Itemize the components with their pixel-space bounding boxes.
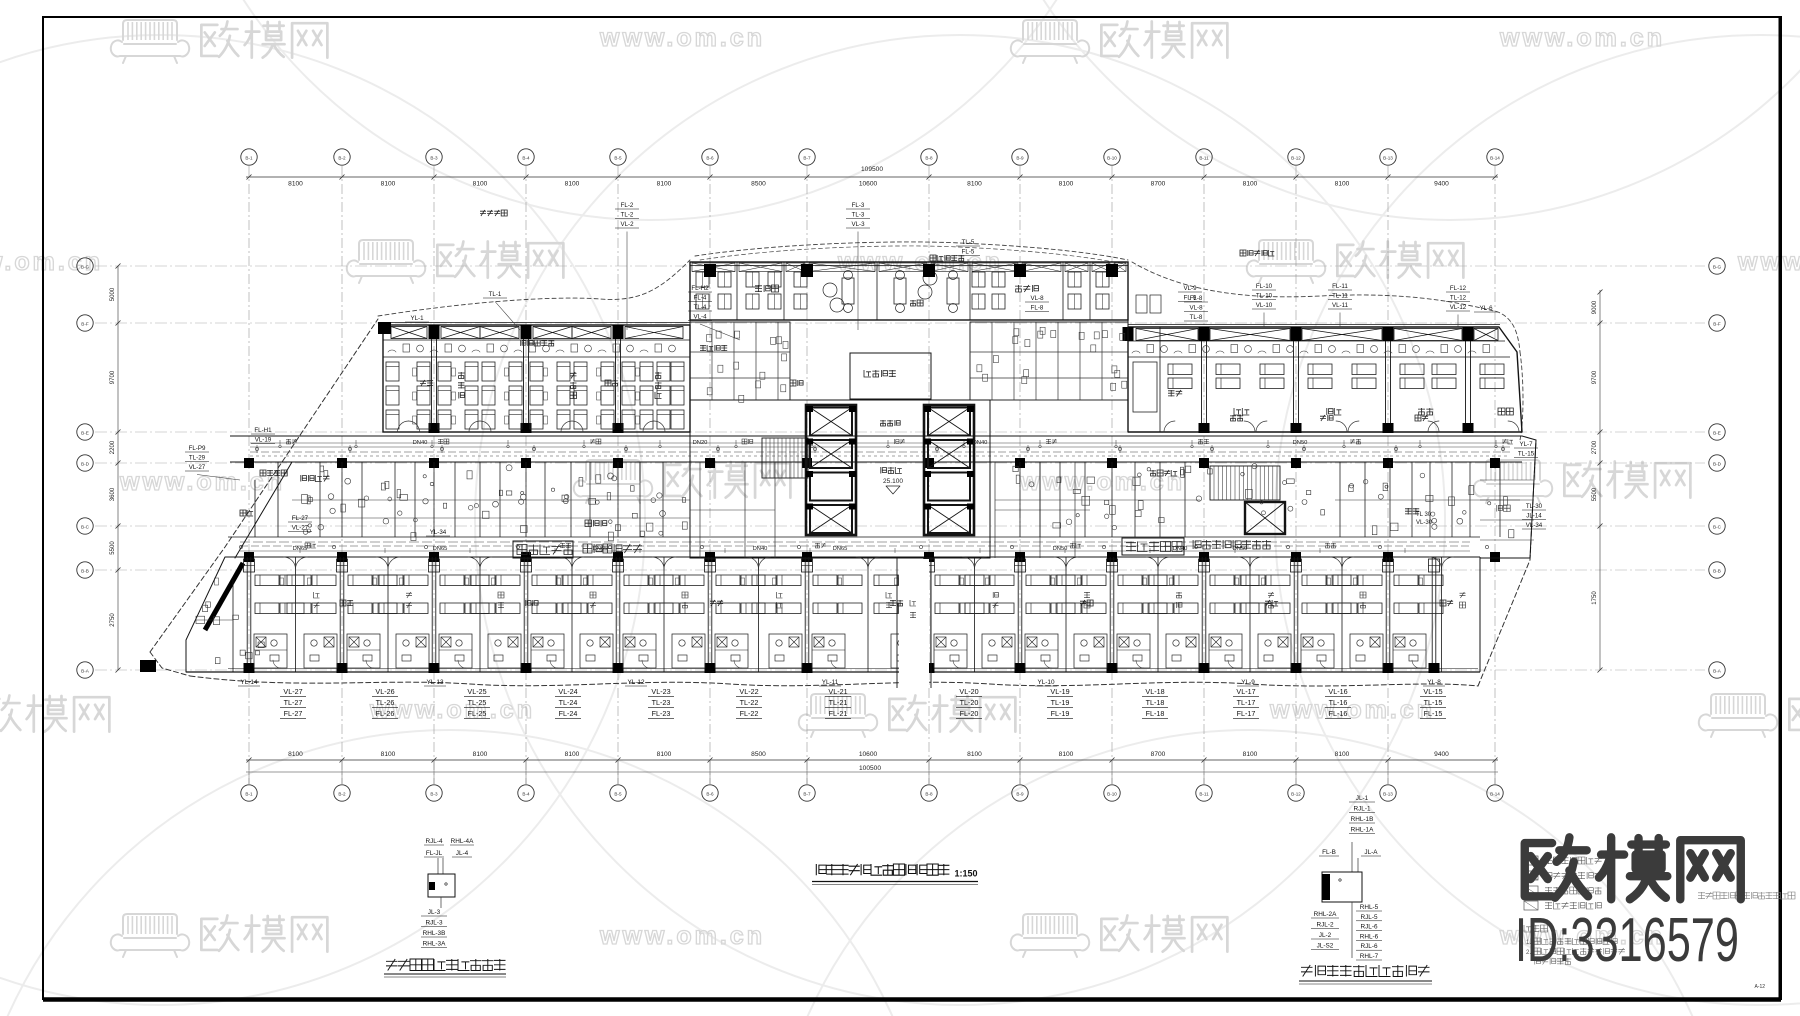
svg-text:www.om.cn: www.om.cn (1737, 248, 1800, 276)
svg-text:TL-29: TL-29 (189, 455, 206, 462)
svg-text:FL-4: FL-4 (694, 295, 707, 302)
svg-text:RJL-2: RJL-2 (1316, 922, 1333, 929)
svg-text:B-9: B-9 (1016, 156, 1024, 161)
svg-text:8100: 8100 (1335, 751, 1350, 758)
svg-text:B-8: B-8 (925, 792, 933, 797)
svg-text:2750: 2750 (110, 613, 116, 627)
svg-text:9400: 9400 (1434, 181, 1449, 188)
svg-text:1:150: 1:150 (954, 869, 977, 879)
svg-text:www.om.cn: www.om.cn (599, 922, 765, 950)
svg-text:YL-13: YL-13 (426, 679, 443, 686)
svg-text:FL-10: FL-10 (1256, 283, 1273, 290)
svg-text:VL-27: VL-27 (283, 687, 302, 696)
svg-text:YL-34: YL-34 (430, 529, 447, 536)
svg-text:B-G: B-G (81, 265, 90, 270)
svg-text:B-7: B-7 (803, 792, 811, 797)
svg-text:VL-27: VL-27 (292, 525, 309, 532)
svg-text:RJL-1: RJL-1 (1353, 806, 1370, 813)
svg-text:JL-4: JL-4 (456, 850, 469, 857)
svg-text:VL-15: VL-15 (1423, 687, 1442, 696)
svg-text:RHL-3B: RHL-3B (423, 930, 446, 937)
svg-text:FL-25: FL-25 (468, 709, 487, 718)
svg-text:FL-JL: FL-JL (426, 850, 443, 857)
svg-text:B-F: B-F (81, 322, 89, 327)
svg-text:B-14: B-14 (1490, 792, 1500, 797)
svg-text:TL-30: TL-30 (1526, 503, 1543, 510)
svg-text:RJL-6: RJL-6 (1360, 943, 1377, 950)
svg-text:FL-17: FL-17 (1237, 709, 1256, 718)
svg-text:8100: 8100 (565, 181, 580, 188)
svg-text:VL-25: VL-25 (467, 687, 486, 696)
svg-text:8100: 8100 (1335, 181, 1350, 188)
svg-text:25.100: 25.100 (883, 478, 903, 485)
svg-text:FL-27: FL-27 (292, 515, 309, 522)
svg-text:B-B: B-B (1713, 569, 1721, 574)
svg-text:VL-8: VL-8 (1189, 305, 1203, 312)
svg-text:FL-2: FL-2 (621, 202, 634, 209)
svg-text:TL-4: TL-4 (694, 304, 707, 311)
svg-text:YL-10: YL-10 (1037, 679, 1054, 686)
svg-text:JL-1: JL-1 (1356, 795, 1369, 802)
svg-text:RHL-2A: RHL-2A (1314, 911, 1337, 918)
svg-text:A-12: A-12 (1754, 984, 1765, 990)
svg-text:DN65: DN65 (593, 546, 608, 552)
svg-text:TL-21: TL-21 (829, 698, 848, 707)
svg-text:FL-8: FL-8 (1031, 305, 1044, 312)
svg-text:YL-1: YL-1 (410, 315, 424, 322)
svg-text:TL-22: TL-22 (740, 698, 759, 707)
svg-text:FL-22: FL-22 (740, 709, 759, 718)
svg-text:TL-25: TL-25 (468, 698, 487, 707)
svg-text:VL-18: VL-18 (1145, 687, 1164, 696)
svg-text:8100: 8100 (381, 751, 396, 758)
svg-text:8100: 8100 (381, 181, 396, 188)
svg-text:B-C: B-C (81, 525, 90, 530)
svg-text:VL-23: VL-23 (651, 687, 670, 696)
svg-text:VL-22: VL-22 (739, 687, 758, 696)
svg-text:JL-A: JL-A (1364, 849, 1378, 856)
svg-text:VL-12: VL-12 (1450, 304, 1467, 311)
svg-text:ID:3316579: ID:3316579 (1515, 906, 1739, 975)
svg-text:TL-3: TL-3 (852, 212, 865, 219)
svg-text:TL-23: TL-23 (652, 698, 671, 707)
svg-text:B-11: B-11 (1199, 156, 1209, 161)
svg-text:TL-15: TL-15 (1424, 698, 1443, 707)
svg-text:TL-12: TL-12 (1450, 295, 1467, 302)
svg-text:FL-P9: FL-P9 (189, 445, 206, 452)
svg-text:8100: 8100 (565, 751, 580, 758)
svg-text:TL-24: TL-24 (559, 698, 578, 707)
svg-text:DN65: DN65 (433, 546, 448, 552)
svg-text:B-D: B-D (81, 462, 90, 467)
svg-text:FL-11: FL-11 (1332, 283, 1348, 290)
svg-text:B-C: B-C (1713, 525, 1722, 530)
svg-text:B-D: B-D (1713, 462, 1722, 467)
svg-text:5000: 5000 (110, 287, 116, 301)
svg-text:B-G: B-G (1713, 265, 1722, 270)
svg-text:8100: 8100 (288, 181, 303, 188)
svg-text:B-4: B-4 (522, 792, 530, 797)
svg-text:B-E: B-E (1713, 431, 1721, 436)
svg-text:VL-4: VL-4 (693, 314, 707, 321)
svg-text:100500: 100500 (859, 765, 881, 772)
svg-text:2200: 2200 (110, 440, 116, 454)
svg-text:FL-20: FL-20 (960, 709, 979, 718)
svg-text:FL-H2: FL-H2 (691, 285, 709, 292)
svg-text:FL-18: FL-18 (1146, 709, 1165, 718)
svg-text:RHL-1B: RHL-1B (1351, 816, 1374, 823)
svg-text:B-A: B-A (1713, 669, 1722, 674)
svg-text:JL-S2: JL-S2 (1317, 943, 1334, 950)
svg-text:FL-23: FL-23 (652, 709, 671, 718)
svg-text:YL-9: YL-9 (1241, 679, 1255, 686)
svg-text:B-12: B-12 (1291, 156, 1301, 161)
svg-text:9000: 9000 (1592, 300, 1598, 314)
svg-text:DN40: DN40 (973, 440, 988, 446)
svg-text:www.om.cn: www.om.cn (1499, 24, 1665, 52)
svg-text:B-14: B-14 (1490, 156, 1500, 161)
svg-text:8100: 8100 (1243, 751, 1258, 758)
svg-text:RJL-4: RJL-4 (425, 838, 442, 845)
svg-text:VL-19: VL-19 (255, 437, 272, 444)
svg-text:DN65: DN65 (833, 546, 848, 552)
svg-text:VL-2: VL-2 (620, 221, 634, 228)
svg-text:B-9: B-9 (1016, 792, 1024, 797)
svg-text:RHL-1A: RHL-1A (1351, 827, 1374, 834)
svg-text:TL-17: TL-17 (1237, 698, 1256, 707)
svg-text:FL-5: FL-5 (962, 249, 975, 256)
svg-text:B-5: B-5 (614, 792, 622, 797)
svg-text:TL-8: TL-8 (1190, 314, 1203, 321)
svg-text:B-10: B-10 (1107, 792, 1117, 797)
svg-text:8100: 8100 (288, 751, 303, 758)
svg-text:VL-26: VL-26 (375, 687, 394, 696)
svg-text:YL-6: YL-6 (1479, 305, 1493, 312)
svg-text:FL-12: FL-12 (1450, 285, 1467, 292)
svg-text:RJL-3: RJL-3 (425, 920, 442, 927)
svg-text:B-13: B-13 (1383, 792, 1393, 797)
svg-text:B-13: B-13 (1383, 156, 1393, 161)
svg-text:5500: 5500 (1592, 487, 1598, 501)
svg-text:YL-8: YL-8 (1427, 679, 1441, 686)
svg-text:TL-18: TL-18 (1146, 698, 1165, 707)
svg-text:DN65: DN65 (293, 546, 308, 552)
svg-text:YL-12: YL-12 (627, 679, 644, 686)
svg-text:DN40: DN40 (413, 440, 428, 446)
svg-text:TL-5: TL-5 (962, 239, 975, 246)
svg-text:VL-3: VL-3 (851, 221, 865, 228)
svg-text:10600: 10600 (859, 181, 878, 188)
svg-text:8700: 8700 (1151, 181, 1166, 188)
svg-text:B-10: B-10 (1107, 156, 1117, 161)
svg-text:VL-19: VL-19 (1050, 687, 1069, 696)
svg-text:TL-2: TL-2 (621, 212, 634, 219)
svg-text:FL-27: FL-27 (284, 709, 303, 718)
svg-text:B-F: B-F (1713, 322, 1721, 327)
svg-text:B-1: B-1 (245, 792, 253, 797)
svg-text:B-11: B-11 (1199, 792, 1209, 797)
svg-text:FL-26: FL-26 (376, 709, 395, 718)
svg-text:FL-16: FL-16 (1329, 709, 1348, 718)
svg-text:DN40: DN40 (753, 546, 768, 552)
svg-text:TL-15: TL-15 (1518, 451, 1535, 458)
svg-text:TL-27: TL-27 (284, 698, 303, 707)
svg-text:B-1: B-1 (245, 156, 253, 161)
svg-text:8100: 8100 (967, 181, 982, 188)
svg-text:DN50: DN50 (1293, 440, 1308, 446)
svg-text:YL-14: YL-14 (240, 679, 257, 686)
svg-text:www.om.cn: www.om.cn (599, 24, 765, 52)
svg-text:FL-3: FL-3 (852, 202, 865, 209)
svg-text:JL-3: JL-3 (428, 909, 441, 916)
svg-text:B-3: B-3 (430, 156, 438, 161)
svg-text:B-6: B-6 (706, 156, 714, 161)
svg-text:VL-9: VL-9 (1183, 285, 1197, 292)
svg-text:10600: 10600 (859, 751, 878, 758)
svg-text:TL-16: TL-16 (1329, 698, 1348, 707)
svg-text:9700: 9700 (110, 370, 116, 384)
svg-text:FL-H1: FL-H1 (254, 427, 272, 434)
svg-text:VL-16: VL-16 (1328, 687, 1347, 696)
svg-text:8100: 8100 (1059, 181, 1074, 188)
svg-text:5500: 5500 (110, 541, 116, 555)
svg-text:8700: 8700 (1151, 751, 1166, 758)
svg-text:B-B: B-B (81, 569, 89, 574)
svg-text:DN50: DN50 (1233, 546, 1248, 552)
svg-text:B-E: B-E (81, 431, 89, 436)
svg-text:B-A: B-A (81, 669, 90, 674)
svg-text:FL-B: FL-B (1322, 849, 1336, 856)
svg-text:FL-21: FL-21 (829, 709, 848, 718)
svg-text:RHL-4A: RHL-4A (451, 838, 474, 845)
svg-text:3600: 3600 (110, 487, 116, 501)
svg-text:TL-10: TL-10 (1256, 293, 1273, 300)
svg-text:VL-8: VL-8 (1030, 295, 1044, 302)
svg-text:VL-34: VL-34 (1526, 522, 1543, 529)
svg-text:RJL-6: RJL-6 (1360, 924, 1377, 931)
svg-text:109500: 109500 (861, 166, 883, 173)
svg-text:TL 30: TL 30 (1416, 512, 1432, 518)
svg-text:8100: 8100 (1059, 751, 1074, 758)
svg-text:8100: 8100 (967, 751, 982, 758)
svg-text:9700: 9700 (1592, 370, 1598, 384)
svg-text:B-7: B-7 (803, 156, 811, 161)
svg-text:B-5: B-5 (614, 156, 622, 161)
svg-text:JL-14: JL-14 (1526, 513, 1542, 520)
svg-text:RHL-7: RHL-7 (1360, 953, 1379, 960)
svg-text:VL-30: VL-30 (1416, 520, 1433, 526)
svg-text:FL-19: FL-19 (1051, 709, 1070, 718)
svg-text:8500: 8500 (751, 181, 766, 188)
svg-text:TL-20: TL-20 (960, 698, 979, 707)
svg-text:RHL-3A: RHL-3A (423, 941, 446, 948)
svg-text:8100: 8100 (473, 181, 488, 188)
svg-text:DN50: DN50 (1053, 546, 1068, 552)
svg-text:8100: 8100 (473, 751, 488, 758)
svg-text:VL-27: VL-27 (189, 464, 206, 471)
svg-text:2700: 2700 (1592, 440, 1598, 454)
svg-text:VL-24: VL-24 (558, 687, 577, 696)
svg-text:VL-21: VL-21 (828, 687, 847, 696)
svg-text:B-12: B-12 (1291, 792, 1301, 797)
svg-text:TL-11: TL-11 (1332, 293, 1348, 300)
svg-text:JL-2: JL-2 (1319, 932, 1332, 939)
svg-text:B-4: B-4 (522, 156, 530, 161)
svg-text:RHL-5: RHL-5 (1360, 904, 1379, 911)
svg-text:8100: 8100 (1243, 181, 1258, 188)
svg-text:www.om.cn: www.om.cn (0, 248, 103, 276)
svg-text:B-2: B-2 (338, 792, 346, 797)
svg-text:VL-17: VL-17 (1236, 687, 1255, 696)
svg-text:www.om.cn: www.om.cn (1269, 696, 1435, 724)
svg-text:8500: 8500 (751, 751, 766, 758)
svg-text:VL-11: VL-11 (1332, 302, 1349, 309)
svg-text:FL-24: FL-24 (559, 709, 578, 718)
svg-text:8100: 8100 (657, 181, 672, 188)
svg-text:RHL-6: RHL-6 (1360, 933, 1379, 940)
svg-text:B-8: B-8 (925, 156, 933, 161)
svg-text:B-2: B-2 (338, 156, 346, 161)
svg-text:FL-8: FL-8 (1190, 295, 1203, 302)
svg-text:YL-11: YL-11 (822, 679, 839, 686)
svg-text:B-3: B-3 (430, 792, 438, 797)
svg-text:FL-15: FL-15 (1424, 709, 1443, 718)
svg-text:TL-26: TL-26 (376, 698, 395, 707)
svg-text:DN40: DN40 (1173, 546, 1188, 552)
svg-text:YL-7: YL-7 (1519, 441, 1533, 448)
svg-text:B-6: B-6 (706, 792, 714, 797)
svg-text:TL-19: TL-19 (1051, 698, 1070, 707)
svg-text:VL-20: VL-20 (959, 687, 978, 696)
svg-text:9400: 9400 (1434, 751, 1449, 758)
svg-text:TL-1: TL-1 (489, 291, 502, 298)
svg-text:DN20: DN20 (693, 440, 708, 446)
svg-text:VL-10: VL-10 (1256, 302, 1273, 309)
svg-text:1750: 1750 (1592, 591, 1598, 605)
svg-text:8100: 8100 (657, 751, 672, 758)
svg-text:RJL-5: RJL-5 (1360, 914, 1377, 921)
